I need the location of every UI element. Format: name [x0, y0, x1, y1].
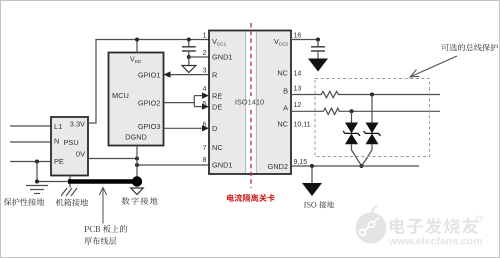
label optional bus protection	[441, 44, 498, 52]
svg-text:GND1: GND1	[212, 160, 233, 169]
node ISO ground junction	[310, 164, 314, 168]
wire L1 input	[10, 125, 51, 127]
ISO1410 right pin numbers	[294, 33, 311, 167]
TVS diode D2 (on B)	[371, 95, 373, 123]
isolation barrier red dashed line	[250, 23, 252, 96]
wire GPIO3 to D with arrow	[164, 127, 205, 129]
wire GND1 pin2	[189, 56, 209, 58]
svg-text:PSU: PSU	[64, 138, 79, 147]
MCU box	[109, 53, 164, 146]
protective earth ground symbol	[26, 186, 48, 194]
node cap to GND1	[187, 55, 191, 59]
node B junction	[370, 93, 374, 97]
wire GND1 pin8	[137, 164, 209, 166]
wire VDD to rail	[136, 40, 138, 53]
svg-text:4: 4	[203, 86, 207, 93]
svg-text:NC: NC	[277, 120, 288, 129]
resistor R2 on A line	[322, 108, 339, 114]
label PCB thick trace line1	[84, 225, 127, 233]
svg-text:9,15: 9,15	[294, 159, 308, 166]
svg-text:GND2: GND2	[267, 162, 288, 171]
svg-text:NC: NC	[277, 69, 288, 78]
wire B pin13	[291, 94, 320, 96]
wire PE to earth	[37, 162, 68, 182]
svg-text:RE: RE	[212, 92, 222, 101]
label chassis ground	[56, 199, 88, 207]
svg-text:12: 12	[294, 102, 302, 109]
thick PCB ground trace	[68, 179, 137, 184]
wire VCC2 pin16	[291, 39, 318, 41]
node big ground dot	[132, 176, 142, 186]
power supply PSU box	[51, 117, 88, 176]
svg-text:NC: NC	[212, 143, 223, 152]
ISO1410 right pin names	[267, 37, 288, 171]
watermark text elecfans	[390, 218, 478, 234]
capacitor C2	[317, 40, 319, 47]
svg-text:3.3V: 3.3V	[70, 120, 85, 129]
wire PE input	[10, 161, 51, 163]
node VDD rail junction	[135, 38, 139, 42]
svg-text:L1: L1	[54, 122, 62, 131]
wire RE stub with arrow	[194, 95, 204, 97]
arrow pointing to PCB trace	[102, 189, 104, 224]
label protective earth	[4, 198, 44, 206]
wire DGND vertical	[136, 146, 138, 182]
svg-text:www.elecfans.com: www.elecfans.com	[388, 236, 483, 248]
ISO1410 left pin names	[212, 37, 233, 169]
ISO ground symbol top (filled triangle)	[308, 59, 328, 72]
capacitor C1	[187, 38, 191, 42]
svg-text:GPIO2: GPIO2	[138, 99, 161, 108]
svg-text:GND1: GND1	[212, 53, 233, 62]
wire 3.3V rail to VCC1	[88, 40, 209, 124]
label galvanic isolation barrier (red)	[227, 194, 275, 202]
svg-text:3: 3	[203, 68, 207, 75]
svg-text:0V: 0V	[76, 150, 85, 159]
chassis ground symbol	[69, 176, 71, 188]
wire GND2 pin9,15	[291, 165, 419, 167]
wire N input	[10, 141, 51, 143]
svg-text:N: N	[54, 137, 59, 146]
wire GPIO2 to RE/DE bracket	[164, 102, 195, 104]
svg-text:14: 14	[294, 71, 302, 78]
node PE junction	[35, 160, 39, 164]
wire 0V to DGND node	[88, 158, 137, 160]
svg-text:7: 7	[203, 145, 207, 152]
node A junction	[350, 109, 354, 113]
label digital ground	[122, 197, 158, 205]
svg-text:1: 1	[203, 33, 207, 40]
ISO1410 left pin numbers	[203, 33, 207, 165]
wire R to GPIO1 with arrow	[168, 74, 209, 76]
svg-text:ISO1410: ISO1410	[235, 98, 264, 107]
svg-text:10,11: 10,11	[294, 122, 311, 129]
svg-text:A: A	[283, 104, 288, 113]
svg-text:GPIO1: GPIO1	[138, 71, 161, 80]
TVS diode D1 (on A)	[351, 111, 353, 122]
svg-text:13: 13	[294, 86, 302, 93]
svg-text:6: 6	[203, 121, 207, 128]
svg-text:DE: DE	[212, 103, 222, 112]
svg-text:GPIO3: GPIO3	[138, 122, 161, 131]
svg-text:16: 16	[294, 33, 302, 40]
digital ground symbol (open triangle)	[188, 57, 190, 65]
digital ground symbol under dot	[131, 188, 143, 195]
watermark logo circle	[356, 206, 387, 244]
svg-text:R: R	[212, 71, 217, 80]
svg-text:B: B	[283, 87, 288, 96]
svg-text:DGND: DGND	[125, 133, 147, 142]
isolator U1 ISO1410 box	[209, 31, 291, 175]
svg-text:8: 8	[203, 157, 207, 164]
node TVS to GND2	[360, 164, 364, 168]
svg-text:MCU: MCU	[112, 91, 129, 100]
svg-text:PE: PE	[54, 157, 64, 166]
arrow to dashed box	[411, 56, 457, 77]
svg-text:D: D	[212, 124, 217, 133]
ISO ground symbol bottom (filled triangle)	[311, 166, 313, 183]
resistor R1 on B line	[320, 91, 340, 97]
label PCB thick trace line2	[84, 237, 116, 245]
label ISO ground	[304, 201, 334, 208]
wire A pin12	[291, 110, 322, 112]
svg-text:2: 2	[203, 50, 207, 57]
wire DE stub with arrow	[194, 106, 204, 108]
svg-text:5: 5	[203, 101, 207, 108]
optional bus protection dashed box	[315, 79, 430, 157]
